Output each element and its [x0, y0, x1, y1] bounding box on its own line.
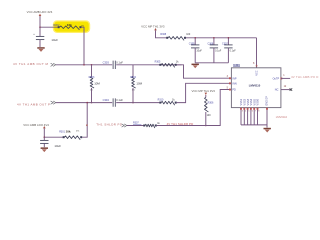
- pin 8 VCC (top): [253, 62, 259, 76]
- node junction (R303 top): [91, 64, 93, 66]
- svg-text:LMV6110: LMV6110: [276, 115, 288, 119]
- capacitor C301 10uF: [33, 27, 58, 47]
- svg-text:VCC MP TH1 3V3: VCC MP TH1 3V3: [192, 89, 216, 93]
- svg-text:VCC: VCC: [256, 70, 259, 75]
- resistor R303 10M (bias left): [89, 65, 101, 103]
- power net VCC_MP_TH1_3V3 (top): [141, 24, 166, 37]
- svg-text:C304: C304: [103, 98, 110, 102]
- power net VCC_MP_TH1_3V3 (mid): [192, 89, 216, 98]
- svg-text:4V TH1 AMB PO D: 4V TH1 AMB PO D: [291, 75, 319, 79]
- highlight (yellow) around R302: [53, 20, 90, 33]
- ground (cap bus): [192, 64, 199, 69]
- capacitor C303 0.1uF (series, top): [103, 60, 124, 69]
- net label TH1_SHLDR_PD: [96, 123, 127, 128]
- svg-text:VCC AMB LDO 4V4: VCC AMB LDO 4V4: [23, 123, 49, 127]
- pin GND/EP (bottom): [266, 96, 269, 128]
- svg-text:OuTP: OuTP: [273, 78, 280, 81]
- capacitor C304 0.1uF (series, bottom): [103, 98, 124, 107]
- wire INP (to pin 3): [177, 65, 232, 78]
- capacitor C306 0.1uF: [208, 37, 222, 63]
- node junction (riser/OUT P): [86, 102, 88, 104]
- svg-text:7: 7: [255, 111, 256, 113]
- svg-text:0.1uF: 0.1uF: [215, 49, 222, 52]
- wire (R302 to top rail): [81, 27, 84, 65]
- svg-text:0.1uF: 0.1uF: [230, 49, 237, 52]
- svg-text:C305: C305: [189, 42, 195, 45]
- svg-text:TH1 SHLDR PD: TH1 SHLDR PD: [96, 123, 122, 127]
- svg-text:C306: C306: [208, 42, 214, 45]
- node junction (LDO/C300): [44, 136, 46, 138]
- svg-text:100: 100: [186, 33, 191, 36]
- svg-text:R303: R303: [89, 76, 95, 79]
- svg-text:INN: INN: [232, 82, 237, 85]
- svg-text:R306: R306: [208, 101, 214, 104]
- svg-text:8: 8: [258, 111, 259, 113]
- wire LDO rail to bias chain: [82, 103, 87, 138]
- wire VCC to pin 8: [256, 38, 258, 68]
- pin 5 PD (left): [227, 86, 236, 91]
- svg-text:1%: 1%: [76, 130, 79, 132]
- wire PD to pin (up): [157, 90, 232, 126]
- svg-text:C303: C303: [103, 60, 110, 64]
- svg-text:R305: R305: [155, 61, 161, 64]
- svg-text:10M: 10M: [136, 82, 142, 86]
- node junction (4V4/C301): [39, 26, 41, 28]
- pin 3 INP (left): [227, 75, 237, 80]
- net label 4V_TH1_SHLDR_PD: [167, 122, 194, 126]
- wire INN (to pin 4): [177, 83, 232, 102]
- stub mark (riser): [86, 125, 88, 126]
- svg-text:NC: NC: [275, 89, 279, 92]
- part label LMV6110 (outside): [276, 115, 288, 119]
- svg-text:R308: R308: [160, 33, 166, 36]
- svg-text:0.1uF: 0.1uF: [116, 98, 123, 102]
- node junction (R304/OUT P): [132, 102, 134, 104]
- svg-text:1%: 1%: [90, 89, 93, 91]
- net label 4V_TH1_AMB_OUT_P: [17, 101, 56, 107]
- power net VCC_AMB_LDO_4V4 (bottom): [23, 123, 49, 137]
- svg-text:100: 100: [207, 114, 212, 117]
- net label 4V_TH1_AMB_PO_D: [291, 75, 319, 79]
- svg-text:4V TH1 AMB OUT M: 4V TH1 AMB OUT M: [13, 62, 49, 66]
- resistor R310 1k (to INN): [158, 99, 177, 106]
- svg-text:R304: R304: [130, 76, 136, 79]
- resistor R307 1k (PD series): [133, 122, 161, 128]
- wire 3V3 rail: [186, 37, 257, 39]
- svg-text:3: 3: [242, 111, 243, 113]
- node junction (R306/PD): [205, 125, 207, 127]
- svg-text:6: 6: [252, 111, 253, 113]
- svg-text:INP: INP: [232, 77, 237, 80]
- svg-text:C307: C307: [222, 42, 228, 45]
- svg-text:0.1uF: 0.1uF: [116, 60, 123, 64]
- wire ground bus (caps): [195, 62, 228, 64]
- op-amp U300 LMV6110 (body): [231, 63, 281, 108]
- net label 4V_TH1_AMB_OUT_M: [13, 62, 56, 66]
- svg-text:10uF: 10uF: [196, 49, 202, 52]
- resistor R306 100 (PD pull): [205, 97, 214, 125]
- svg-text:VSS6: VSS6: [256, 98, 260, 105]
- svg-text:10uF: 10uF: [54, 144, 61, 148]
- svg-text:10k: 10k: [66, 130, 71, 134]
- ground (C301): [37, 47, 44, 52]
- wire VSS bus: [241, 124, 267, 126]
- resistor R301 10k (LDO rail): [59, 130, 82, 140]
- capacitor C307 0.1uF: [222, 37, 236, 63]
- capacitor C300 10uF (LDO): [40, 137, 61, 148]
- svg-text:10uF: 10uF: [51, 38, 58, 42]
- wire top signal (OUT M): [56, 64, 112, 66]
- svg-text:10M: 10M: [94, 82, 100, 86]
- wire LDO rail: [44, 136, 62, 138]
- svg-text:U300: U300: [233, 63, 240, 67]
- wire (4V4 rail to R302): [40, 26, 58, 28]
- svg-text:LMV6110: LMV6110: [249, 84, 261, 88]
- svg-text:4: 4: [245, 111, 246, 113]
- svg-text:4V TH1 AMB OUT P: 4V TH1 AMB OUT P: [17, 103, 50, 107]
- resistor R302 10k (highlighted): [53, 23, 84, 30]
- svg-text:VCC MP TH1 3V3: VCC MP TH1 3V3: [141, 24, 165, 28]
- svg-text:GND EP: GND EP: [266, 96, 269, 106]
- wire bottom signal (OUT P): [56, 102, 112, 104]
- wire bottom signal (cont.): [116, 102, 159, 104]
- svg-text:R310: R310: [158, 99, 164, 102]
- resistor R308 100 (3V3 rail): [160, 33, 190, 40]
- capacitor C305 10uF: [189, 37, 203, 63]
- svg-text:5: 5: [248, 111, 249, 113]
- resistor R304 10M (bias right): [130, 65, 142, 103]
- pin 4 INN (left): [229, 82, 237, 85]
- wire top signal (cont.): [116, 64, 181, 66]
- wire PD net: [127, 125, 143, 127]
- pins VSS1-VSS6 (bottom): [239, 98, 259, 124]
- node junction (R303/OUT P): [91, 102, 93, 104]
- svg-text:VCC AMB LDO 4V4: VCC AMB LDO 4V4: [27, 10, 53, 14]
- ground (C300): [41, 147, 48, 152]
- ground (IC): [264, 128, 271, 133]
- svg-text:R302: R302: [53, 23, 60, 27]
- node junction (R302 drop): [83, 64, 85, 66]
- svg-text:PD: PD: [232, 89, 236, 92]
- power net VCC_AMB_LDO_4V4 (top-left): [27, 10, 53, 27]
- pin 1 OUTP (right): [273, 74, 291, 80]
- svg-text:10k: 10k: [67, 23, 72, 27]
- pin 12 NC (right): [275, 85, 292, 92]
- svg-text:1%: 1%: [132, 89, 135, 91]
- resistor R305 1k (to INP): [155, 61, 180, 68]
